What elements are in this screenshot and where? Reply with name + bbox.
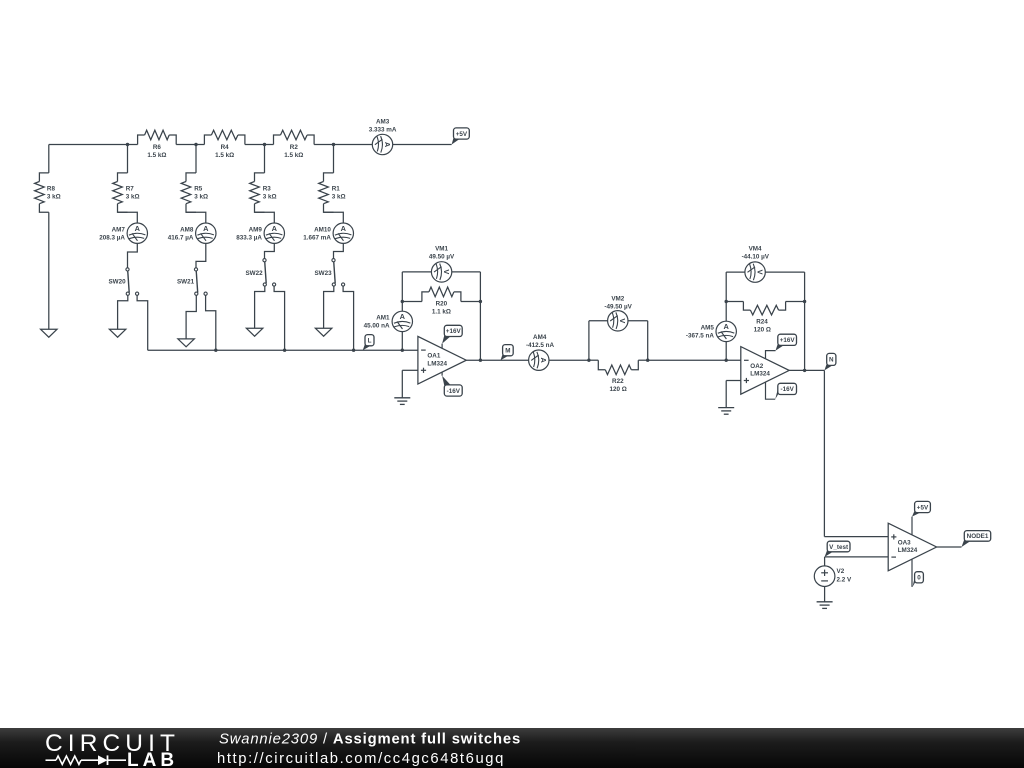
wire SW23 throw2 to bus	[343, 286, 354, 350]
wire AM9 to SW22	[265, 243, 275, 258]
svg-text:-16V: -16V	[447, 388, 461, 395]
voltage source V2	[814, 557, 852, 602]
power flag +16V OA1	[442, 325, 462, 348]
wire SW20 throw1 to ground	[118, 295, 128, 329]
wire SW21 throw2 to bus	[206, 295, 216, 350]
svg-text:49.50 µV: 49.50 µV	[429, 253, 455, 260]
ground SW21	[178, 339, 194, 347]
svg-text:OA2: OA2	[750, 363, 763, 370]
svg-text:AM5: AM5	[701, 325, 715, 332]
svg-text:1.667 mA: 1.667 mA	[303, 234, 331, 241]
svg-text:1.5 kΩ: 1.5 kΩ	[284, 152, 303, 159]
svg-text:R1: R1	[332, 186, 341, 193]
svg-text:R4: R4	[221, 144, 230, 151]
svg-text:LM324: LM324	[898, 547, 918, 554]
voltmeter VM2	[589, 296, 648, 361]
svg-text:AM9: AM9	[249, 227, 263, 234]
svg-text:R22: R22	[612, 378, 624, 385]
ground SW23	[315, 328, 331, 336]
svg-text:3 kΩ: 3 kΩ	[194, 194, 208, 201]
svg-text:+16V: +16V	[780, 337, 796, 344]
op-amp OA2	[741, 347, 789, 395]
svg-text:A: A	[383, 142, 392, 148]
svg-text:http://circuitlab.com/cc4gc648: http://circuitlab.com/cc4gc648t6ugq	[217, 751, 505, 767]
op-amp OA1	[418, 336, 466, 384]
wire SW22 throw1 to ground	[255, 286, 265, 328]
ground OA2	[718, 408, 734, 415]
resistor R6	[138, 130, 177, 159]
svg-text:-49.50 µV: -49.50 µV	[604, 304, 632, 311]
switch SW23	[314, 259, 344, 287]
svg-text:N: N	[829, 357, 834, 364]
resistor R4	[204, 130, 245, 159]
svg-text:A: A	[400, 312, 406, 321]
node flag M	[501, 345, 514, 361]
svg-text:0: 0	[917, 575, 921, 582]
resistor R22	[587, 359, 649, 394]
switch SW22	[245, 259, 275, 287]
resistor R3	[250, 145, 277, 224]
svg-text:A: A	[203, 224, 209, 233]
node flag V_test	[825, 541, 850, 557]
wire SW22 throw2 to bus	[274, 286, 285, 350]
svg-text:-16V: -16V	[780, 386, 794, 393]
svg-text:45.00 nA: 45.00 nA	[364, 323, 390, 330]
svg-text:833.3 µA: 833.3 µA	[236, 234, 262, 241]
wire top rail	[49, 144, 452, 146]
svg-text:OA3: OA3	[898, 539, 911, 546]
svg-text:416.7 µA: 416.7 µA	[168, 234, 194, 241]
svg-text:A: A	[724, 322, 730, 331]
power flag -16V OA2	[766, 382, 797, 399]
resistor R1	[319, 145, 346, 224]
svg-text:R2: R2	[290, 144, 299, 151]
wire OA1 noninv to ground	[402, 370, 418, 397]
svg-text:A: A	[341, 224, 347, 233]
svg-text:120 Ω: 120 Ω	[609, 386, 626, 393]
power flag -16V OA1	[442, 372, 462, 396]
svg-text:A: A	[272, 224, 278, 233]
svg-text:3.333 mA: 3.333 mA	[369, 126, 397, 133]
resistor R24	[725, 300, 807, 334]
wire SW23 throw1 to ground	[324, 286, 334, 328]
wire AM4 net to OA2	[648, 359, 741, 362]
svg-text:V_test: V_test	[829, 544, 849, 551]
svg-text:R24: R24	[756, 319, 768, 326]
svg-text:VM4: VM4	[749, 246, 762, 253]
svg-text:-44.10 µV: -44.10 µV	[742, 254, 770, 261]
svg-text:+16V: +16V	[446, 328, 462, 335]
wire bottom bus	[148, 349, 418, 352]
wire SW20 throw2 to bus	[137, 295, 148, 350]
svg-text:1.5 kΩ: 1.5 kΩ	[215, 152, 234, 159]
svg-text:AM3: AM3	[376, 119, 390, 126]
svg-text:SW23: SW23	[314, 270, 332, 277]
wire SW21 throw1 to ground	[186, 295, 196, 339]
svg-text:+5V: +5V	[917, 504, 929, 511]
svg-text:SW20: SW20	[108, 279, 126, 286]
op-amp OA3	[888, 523, 936, 571]
svg-text:1.1 kΩ: 1.1 kΩ	[432, 308, 451, 315]
svg-text:3 kΩ: 3 kΩ	[47, 194, 61, 201]
resistor R8	[35, 145, 61, 330]
svg-text:LM324: LM324	[427, 360, 447, 367]
svg-text:A: A	[539, 358, 548, 364]
svg-text:V2: V2	[837, 568, 845, 575]
voltmeter VM1	[402, 246, 480, 302]
node flag L	[363, 335, 374, 351]
svg-text:LAB: LAB	[127, 750, 178, 768]
power flag +16V OA2	[766, 334, 797, 359]
node rail junctions	[126, 143, 335, 146]
wire AM10 to SW23	[334, 243, 344, 258]
ground R8	[41, 329, 57, 337]
power flag +5V OA3	[912, 501, 930, 534]
resistor R20	[401, 287, 483, 315]
wire OA2 output	[789, 369, 824, 371]
svg-text:AM10: AM10	[314, 227, 331, 234]
wire AM7 to SW20	[128, 243, 138, 268]
voltmeter VM4	[726, 246, 804, 302]
svg-text:3 kΩ: 3 kΩ	[332, 194, 346, 201]
svg-text:AM1: AM1	[376, 315, 390, 322]
ammeter AM5	[686, 302, 737, 361]
wire OA2 noninv to ground	[726, 381, 741, 408]
svg-text:R8: R8	[47, 186, 56, 193]
svg-text:LM324: LM324	[750, 371, 770, 378]
svg-text:R3: R3	[263, 186, 272, 193]
svg-text:M: M	[505, 348, 510, 355]
svg-text:+5V: +5V	[456, 131, 468, 138]
node flag NODE1	[962, 531, 991, 547]
wire OA3 inv input	[825, 556, 889, 558]
svg-text:120 Ω: 120 Ω	[754, 326, 771, 333]
svg-text:OA1: OA1	[427, 353, 440, 360]
ground SW20	[109, 329, 125, 337]
svg-text:208.3 µA: 208.3 µA	[99, 234, 125, 241]
svg-text:3 kΩ: 3 kΩ	[263, 194, 277, 201]
svg-text:Swannie2309 / Assigment full s: Swannie2309 / Assigment full switches	[219, 732, 521, 748]
svg-text:V: V	[755, 270, 764, 275]
resistor R2	[274, 130, 315, 159]
ammeter AM7	[99, 223, 147, 243]
power flag 0 OA3	[912, 559, 923, 587]
svg-text:V: V	[442, 269, 451, 274]
svg-text:AM4: AM4	[533, 334, 547, 341]
svg-text:VM1: VM1	[435, 246, 448, 253]
svg-text:AM7: AM7	[112, 227, 126, 234]
svg-text:-367.5 nA: -367.5 nA	[686, 333, 714, 340]
svg-text:R6: R6	[153, 144, 162, 151]
wire OA1 output	[466, 359, 500, 361]
ammeter AM1	[364, 302, 413, 351]
ground SW22	[246, 328, 262, 336]
svg-text:NODE1: NODE1	[967, 533, 989, 540]
ammeter AM10	[303, 223, 353, 243]
ammeter AM9	[236, 223, 284, 243]
resistor R7	[113, 145, 140, 224]
svg-text:AM8: AM8	[180, 227, 194, 234]
wire R24 to output	[803, 302, 806, 373]
ground OA1	[394, 398, 410, 405]
svg-text:R5: R5	[194, 186, 203, 193]
svg-text:SW22: SW22	[245, 270, 263, 277]
node flag N	[824, 353, 836, 370]
power flag +5V	[452, 128, 470, 145]
svg-text:3 kΩ: 3 kΩ	[126, 194, 140, 201]
svg-text:R20: R20	[436, 301, 448, 308]
ammeter AM3	[369, 119, 397, 155]
svg-text:A: A	[135, 224, 141, 233]
svg-text:R7: R7	[126, 186, 135, 193]
wire R20 to output	[479, 302, 482, 362]
wire node N to OA3	[824, 370, 888, 536]
wire AM8 to SW21	[196, 243, 206, 268]
switch SW21	[177, 268, 207, 296]
wire OA3 output	[937, 546, 962, 548]
svg-text:VM2: VM2	[611, 296, 624, 303]
switch SW20	[108, 268, 138, 296]
resistor R5	[181, 145, 208, 224]
svg-text:1.5 kΩ: 1.5 kΩ	[147, 152, 166, 159]
svg-text:2.2 V: 2.2 V	[837, 577, 853, 584]
svg-text:V: V	[618, 318, 627, 323]
ammeter AM4	[501, 334, 589, 371]
svg-text:-412.5 nA: -412.5 nA	[526, 342, 554, 349]
ammeter AM8	[168, 223, 216, 243]
ground V2	[817, 602, 833, 609]
svg-text:SW21: SW21	[177, 279, 195, 286]
svg-text:L: L	[368, 338, 372, 345]
